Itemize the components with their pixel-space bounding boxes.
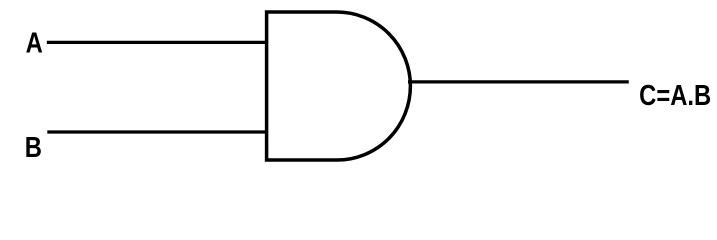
svg-text:A: A <box>26 26 43 59</box>
AND gate U1 <box>267 12 411 160</box>
svg-text:B: B <box>25 131 42 164</box>
svg-text:C=A.B: C=A.B <box>639 79 711 112</box>
wire B input <box>47 130 267 133</box>
wire A input <box>47 41 267 44</box>
wire C output <box>408 80 629 83</box>
